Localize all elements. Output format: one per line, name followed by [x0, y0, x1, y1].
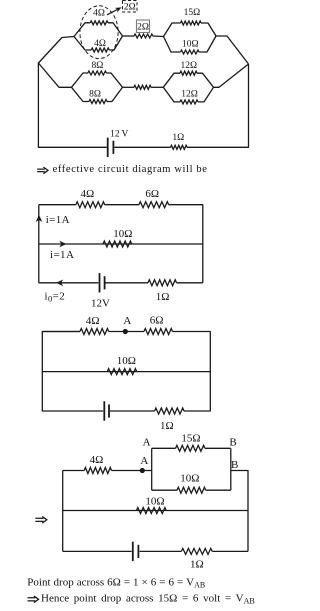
svg-text:B: B [231, 459, 238, 471]
svg-text:10Ω: 10Ω [113, 228, 132, 240]
label implies (left of circuit4) [35, 517, 43, 519]
resistor 10 ohm (circuit4 middle) [136, 508, 166, 514]
svg-text:12Ω: 12Ω [181, 90, 198, 100]
svg-text:2Ω: 2Ω [124, 3, 136, 13]
svg-text:4Ω: 4Ω [80, 188, 94, 200]
resistor 1 ohm (circuit3) [155, 408, 184, 414]
inner box bottom wire right segment [206, 489, 231, 491]
resistor 8 ohm top [88, 71, 107, 75]
svg-text:2Ω: 2Ω [137, 22, 149, 32]
svg-text:i0=2: i0=2 [45, 291, 66, 304]
resistor 10 ohm (circuit4 box) [177, 487, 206, 493]
wire: circuit1 left branch from node L up to 4-ohm pair vertex [38, 37, 74, 64]
resistor 10 ohm (circuit1) [181, 50, 200, 54]
wire: 12-ohm pair bottom lead [163, 87, 180, 102]
svg-text:12V: 12V [91, 297, 110, 309]
wire: circuit2 middle wire [39, 243, 203, 245]
wire: 4-ohm pair bottom branch lead [74, 37, 91, 51]
resistor 1 ohm (circuit4) [181, 548, 212, 554]
svg-text:10Ω: 10Ω [182, 40, 199, 50]
wire: circuit1 node L down to 8-ohm pair vertex [38, 63, 71, 87]
wire: 15-ohm branch lead [164, 23, 181, 37]
resistor 6 ohm (circuit3) [144, 329, 173, 335]
svg-text:effective circuit diagram will: effective circuit diagram will be [53, 164, 208, 175]
svg-text:i=1A: i=1A [46, 214, 70, 226]
svg-text:10Ω: 10Ω [180, 472, 199, 484]
svg-text:1Ω: 1Ω [156, 291, 170, 303]
wire: circuit1 left vertical and bottom-left wire to battery [38, 63, 106, 148]
text line: Hence point drop across 15 ohm [28, 597, 36, 599]
arrow up on left vertical (current i) [36, 215, 43, 222]
wire: top group to node R [216, 36, 249, 64]
wire: middle resistor to 12-ohm pair vertex [151, 86, 163, 88]
resistor 1 ohm (circuit1 bottom) [171, 145, 188, 149]
svg-text:1Ω: 1Ω [172, 133, 184, 143]
svg-text:4Ω: 4Ω [94, 39, 106, 49]
wire: 8-ohm pair top lead [72, 73, 88, 87]
wire: 12-ohm pair top lead [163, 73, 180, 87]
resistor 6 ohm (circuit2) [139, 202, 169, 208]
gray box around 2 ohm label [137, 20, 150, 33]
svg-text:A: A [123, 315, 131, 327]
wire: 2-ohm to 15/10 pair vertex [153, 35, 164, 38]
wire: circuit2 top-right corner, right vertical [169, 205, 203, 283]
inner box rectangle (15/10 ohm parallel) left side [151, 448, 153, 490]
svg-text:12Ω: 12Ω [181, 61, 198, 71]
svg-text:12 V: 12 V [110, 130, 128, 140]
wire: circuit3 top wire left segment [42, 331, 80, 333]
svg-text:8Ω: 8Ω [91, 61, 103, 71]
wire: box right side to outer right vertical [231, 471, 248, 552]
wire: circuit3 left side [42, 332, 103, 412]
wire: circuit2 top between 4-ohm and 6-ohm [105, 204, 139, 206]
resistor R 4 ohm top of pair [90, 21, 108, 25]
inner box top wire with 15 ohm [152, 447, 176, 449]
wire: 10-ohm branch lead [164, 37, 181, 53]
battery B2 [99, 273, 101, 292]
wire: circuit4 top wire left segment [63, 470, 84, 472]
battery B3 [103, 401, 105, 420]
wire: 4-ohm pair top branch to right vertex [108, 23, 123, 36]
svg-text:8Ω: 8Ω [89, 90, 101, 100]
resistor 15 ohm [181, 21, 202, 25]
svg-text:10Ω: 10Ω [117, 355, 136, 367]
text: implies effective circuit diagram will be [37, 168, 45, 170]
svg-text:4Ω: 4Ω [90, 454, 104, 466]
svg-text:Hence point drop across 15Ω =: Hence point drop across 15Ω = 6 volt = V… [41, 592, 255, 605]
svg-text:6Ω: 6Ω [145, 188, 159, 200]
resistor 4 ohm bottom of pair [91, 48, 109, 52]
wire: circuit4 middle wire [63, 510, 248, 512]
svg-text:6Ω: 6Ω [150, 314, 164, 326]
resistor 15 ohm (circuit4) [176, 445, 205, 451]
node A (dot) [123, 329, 128, 334]
resistor 4 ohm (circuit2) [76, 202, 105, 208]
wire: 12-ohm top to right vertex [197, 73, 214, 87]
resistor 4 ohm (circuit4) [84, 468, 111, 474]
svg-text:15Ω: 15Ω [181, 433, 200, 445]
resistor 2 ohm series (circuit1) [134, 34, 153, 38]
wire: circuit2 bottom wire battery to 1-ohm [106, 282, 149, 284]
wire: circuit3 top between 4-ohm and node A [109, 331, 144, 333]
dashed ellipse around 4-ohm pair [80, 6, 118, 59]
wire: circuit3 bottom wire battery to 1-ohm [110, 410, 155, 412]
arrow right on middle wire [59, 241, 66, 248]
wire: circuit4 top wire to node A [112, 470, 152, 472]
wire: 15-ohm branch to right vertex [201, 23, 216, 36]
wire: 4-ohm pair bottom branch to right vertex [109, 36, 122, 50]
wire: circuit3 middle wire [42, 371, 210, 373]
node A (dot, circuit4) [140, 468, 145, 473]
wire: lower group to node R [214, 64, 249, 87]
arrow from ellipse to dashed 2-ohm box [107, 9, 119, 15]
wire: circuit3 outer rectangle [173, 332, 211, 412]
svg-text:15Ω: 15Ω [184, 8, 201, 18]
wire: circuit1 bottom wire to right vertical up to node R [187, 64, 249, 147]
resistor 12 ohm bottom [180, 100, 198, 104]
svg-text:1Ω: 1Ω [160, 420, 174, 432]
wire: 10-ohm branch to right vertex [199, 36, 216, 52]
wire: between 4-ohm pair and 2-ohm resistor [123, 35, 135, 37]
svg-text:A: A [140, 455, 148, 467]
wire: circuit2 left vertical [38, 205, 40, 283]
resistor 1 ohm (circuit2) [148, 280, 177, 286]
svg-text:Point drop across 6Ω = 1 × 6 =: Point drop across 6Ω = 1 × 6 = 6 = VAB [27, 576, 205, 589]
inner box top wire right segment [205, 447, 231, 449]
wire: between 8-ohm pair and middle resistor [123, 86, 135, 88]
wire: 8-ohm bottom to right vertex [107, 87, 123, 101]
resistor 12 ohm top [180, 71, 197, 75]
wire: circuit4 bottom wire left of battery [63, 550, 132, 552]
battery B4 [132, 542, 134, 561]
wire: 4-ohm pair top branch lead [74, 23, 90, 37]
arrow left on bottom wire (current i0) [56, 280, 63, 287]
resistor middle series (row2, unlabeled) [134, 85, 151, 89]
svg-text:A: A [143, 437, 151, 449]
svg-text:10Ω: 10Ω [145, 496, 164, 508]
wire: circuit4 left vertical [62, 471, 64, 552]
resistor 10 ohm (circuit3 middle) [107, 369, 136, 375]
wire: circuit2 bottom wire left of battery [39, 282, 99, 284]
inner box right side [230, 448, 232, 490]
inner box bottom wire with 10 ohm [152, 489, 177, 491]
svg-text:4Ω: 4Ω [86, 315, 100, 327]
svg-text:4Ω: 4Ω [93, 9, 105, 19]
svg-text:B: B [229, 436, 236, 448]
battery B1 (12 V) [107, 138, 109, 157]
svg-text:i=1A: i=1A [50, 249, 74, 261]
wire: circuit2 outer rectangle top-left corner and top wire to 4-ohm [39, 204, 76, 206]
svg-text:1Ω: 1Ω [190, 559, 204, 571]
resistor 10 ohm (circuit2 middle) [103, 241, 132, 247]
wire: circuit1 bottom wire battery to 1-ohm resistor [114, 146, 170, 148]
wire: 8-ohm pair bottom lead [72, 87, 90, 101]
resistor 8 ohm bottom [89, 100, 107, 104]
wire: 12-ohm bottom to right vertex [198, 87, 214, 102]
resistor 4 ohm (circuit3) [80, 329, 109, 335]
wire: circuit4 bottom battery to 1-ohm [140, 550, 182, 552]
wire: circuit4 bottom wire right of 1-ohm [212, 550, 248, 552]
dashed box with 2 ohm label [123, 1, 138, 13]
wire: circuit2 bottom wire right of 1-ohm [177, 282, 203, 284]
wire: 8-ohm top to right vertex [106, 73, 122, 87]
